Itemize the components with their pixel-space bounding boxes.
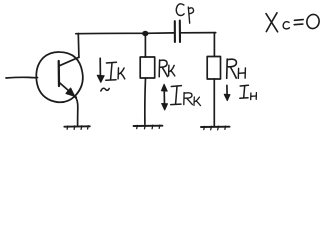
label Cp [176, 4, 193, 23]
transistor Q1 [36, 52, 83, 102]
capacitor Cp [175, 21, 180, 42]
wire RK to ground [144, 78, 147, 124]
label Ik [106, 62, 125, 80]
resistor RH [207, 57, 220, 80]
label IRk [171, 86, 201, 106]
wire top rail left [76, 32, 174, 35]
arrow Ik down [97, 58, 104, 82]
arrow IRk double [161, 84, 167, 110]
ground RH [201, 126, 230, 130]
label RH [227, 59, 246, 78]
ground emitter [64, 126, 89, 130]
wire collector riser [77, 34, 80, 58]
label Xc = 0 [266, 13, 320, 32]
arrow In down [224, 85, 230, 100]
wire RH riser [213, 33, 215, 56]
label In [240, 85, 257, 99]
wire emitter to ground [75, 97, 78, 125]
node A junction dot [142, 31, 148, 36]
wire base lead [6, 76, 38, 79]
wire node to RK [144, 34, 146, 57]
ground RK [134, 125, 163, 129]
tilde under Ik [101, 88, 109, 91]
label RK [159, 60, 175, 77]
wire RH to ground [213, 79, 215, 126]
wire top rail right [181, 32, 216, 34]
resistor RK [140, 57, 155, 78]
